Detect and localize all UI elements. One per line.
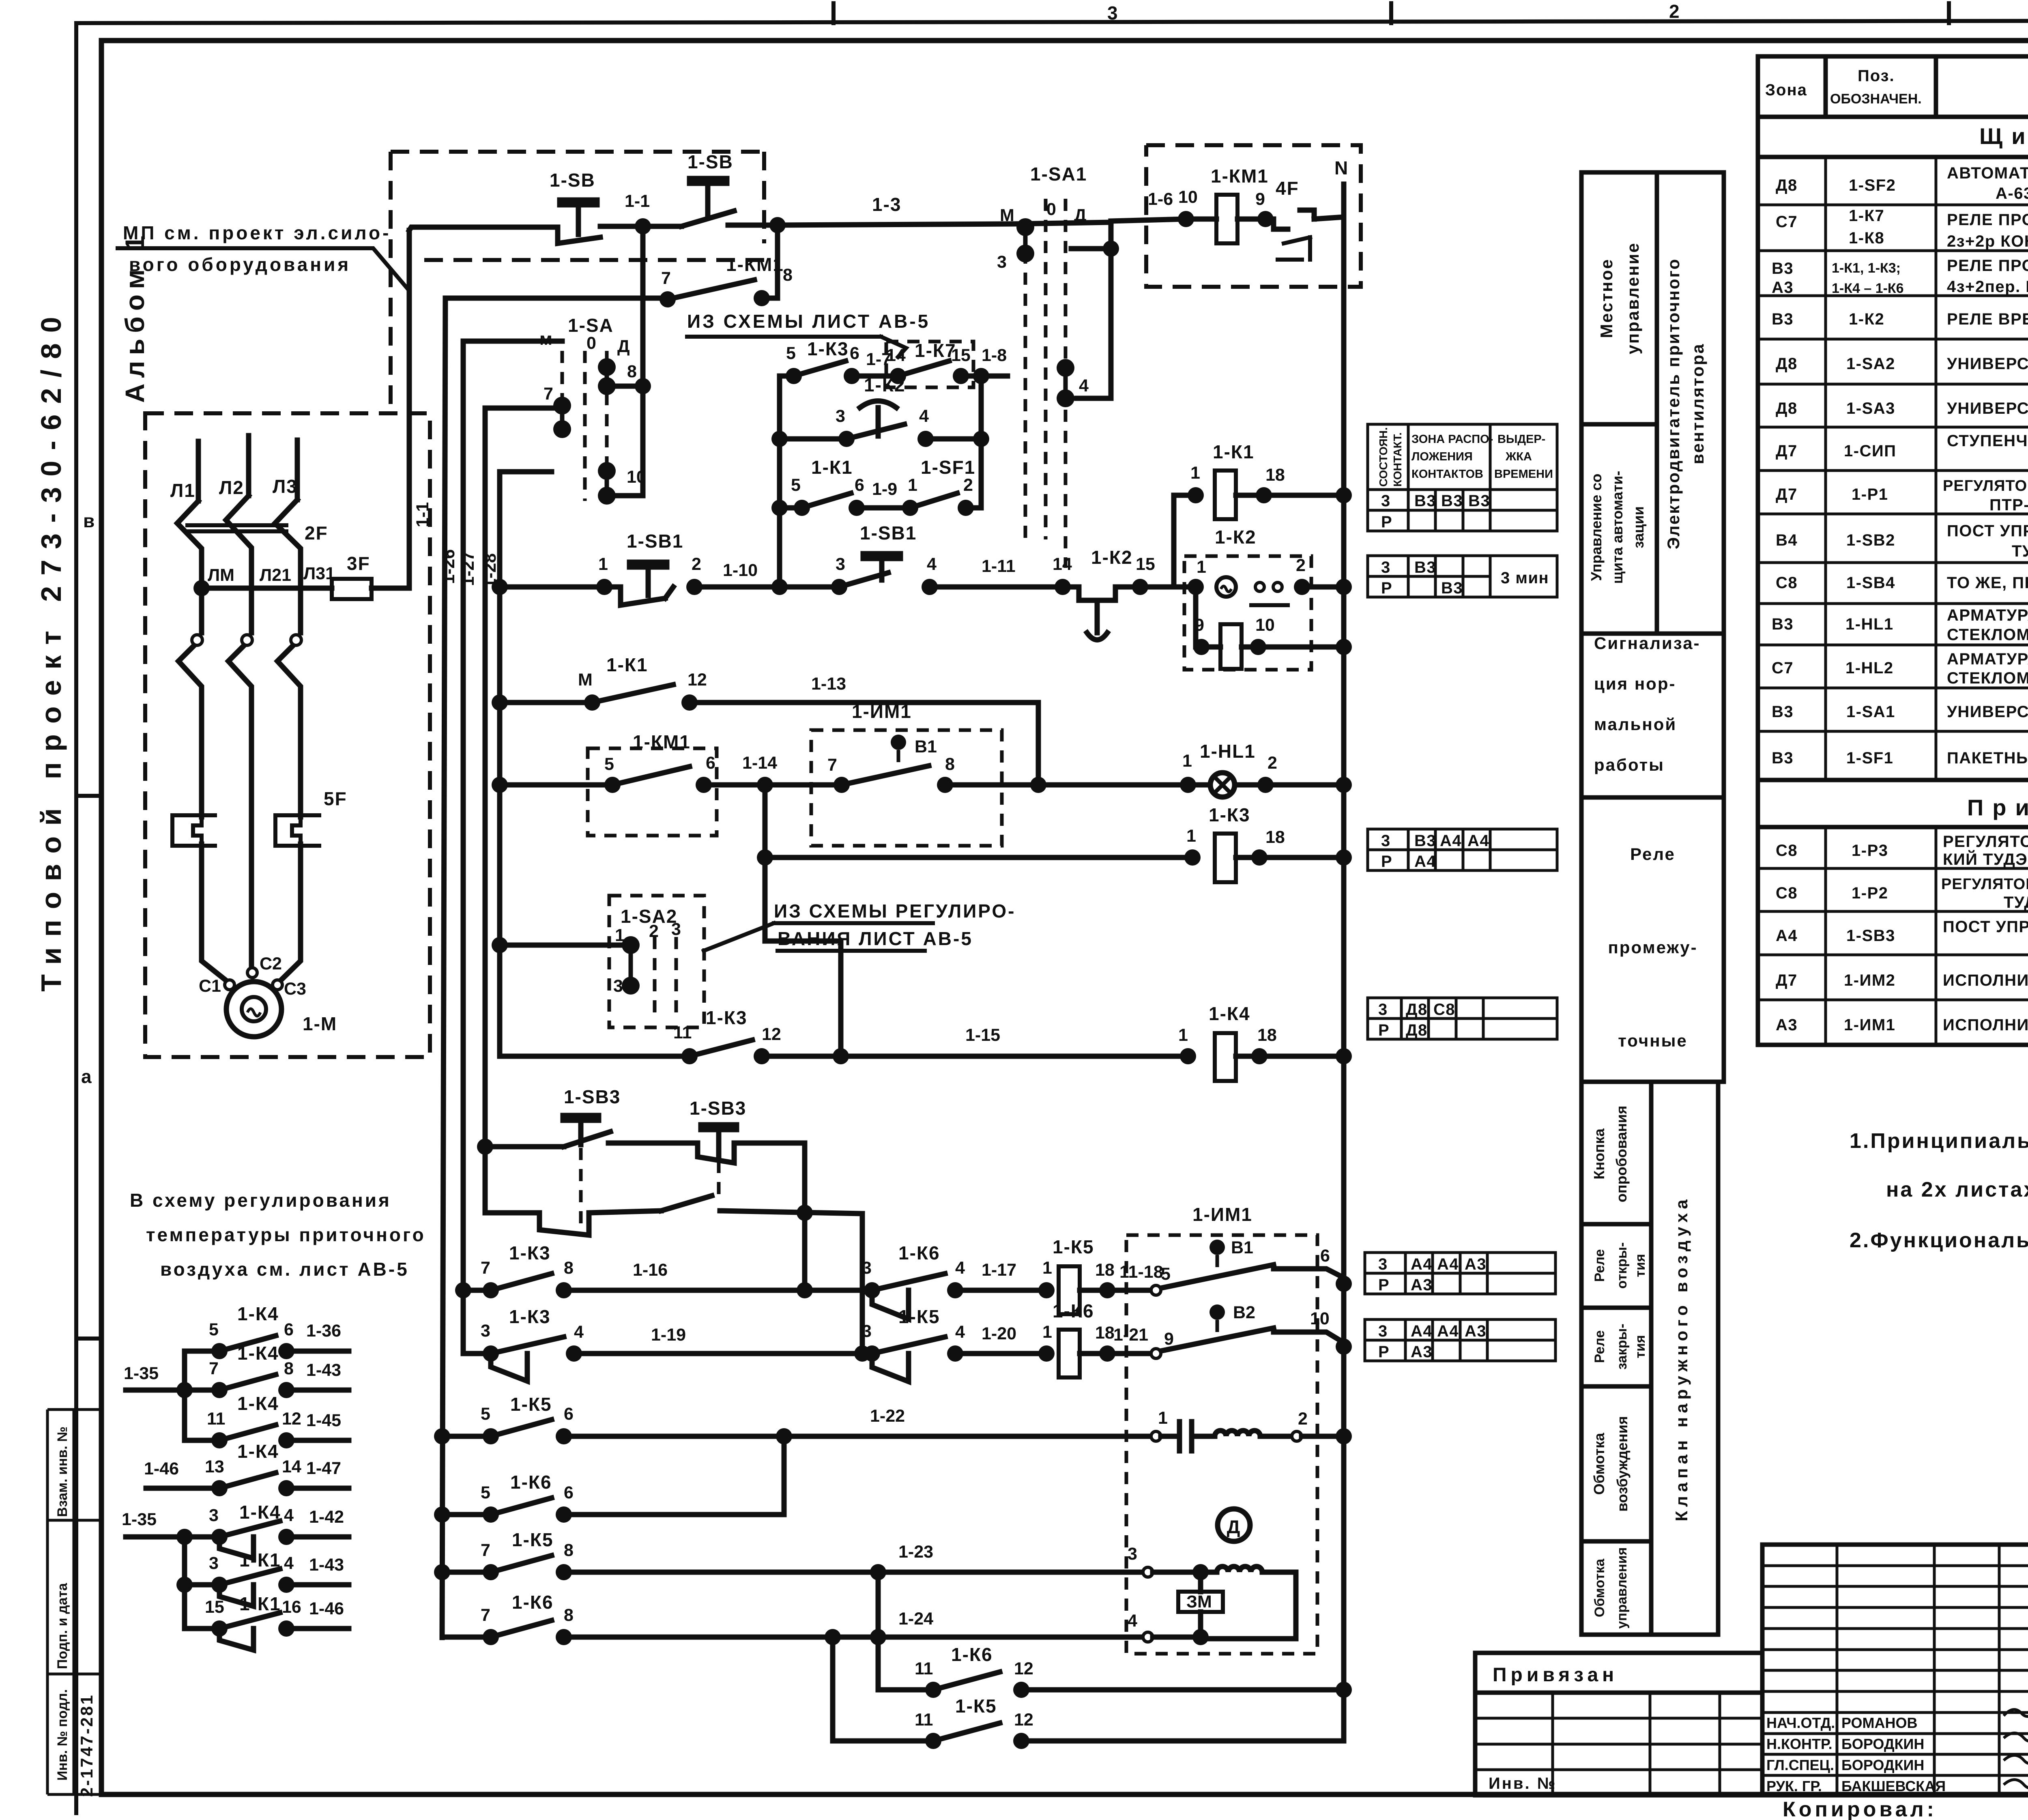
wire phase3 down to contactor (298, 588, 303, 633)
fuse 3F (332, 579, 372, 599)
motor terminal C2 (247, 968, 257, 978)
svg-text:1-10: 1-10 (723, 561, 758, 580)
svg-text:1-16: 1-16 (633, 1260, 668, 1280)
motor terminal C3 (273, 980, 282, 990)
svg-text:Д8: Д8 (1776, 176, 1798, 194)
svg-text:1-SА2: 1-SА2 (1846, 355, 1895, 373)
svg-text:В3: В3 (1441, 492, 1463, 510)
svg-text:3: 3 (613, 976, 623, 996)
svg-text:3: 3 (1128, 1544, 1137, 1564)
box intermediate relays (1581, 797, 1724, 1082)
rung 1-19 (463, 1351, 491, 1356)
breaker 2F contact phase2 (226, 496, 251, 588)
lower branch dip contact under button1 (539, 1211, 661, 1235)
svg-text:Реле: Реле (1592, 1249, 1607, 1282)
contact 1-K6 (933, 1672, 1000, 1690)
limit contact B1 in IM1 (1151, 1285, 1161, 1295)
left bus of subladder (777, 376, 782, 590)
motor D circle (1218, 1509, 1250, 1541)
svg-text:1-К1, 1-К3;: 1-К1, 1-К3; (1832, 260, 1901, 276)
svg-text:1: 1 (615, 926, 625, 945)
rung 1-24 (442, 1635, 491, 1640)
svg-text:1-К1: 1-К1 (606, 654, 648, 675)
svg-text:С3: С3 (284, 979, 306, 999)
dashed box 1-KM1 aux contact (588, 748, 717, 836)
wire L2 stub (246, 436, 251, 496)
rung SA2 (500, 943, 631, 948)
svg-text:18: 18 (1257, 1025, 1277, 1045)
svg-text:Поз.: Поз. (1858, 67, 1895, 85)
svg-text:вентилятора: вентилятора (1688, 343, 1707, 464)
svg-text:Р: Р (1378, 1021, 1390, 1039)
box excitation winding (1581, 1386, 1651, 1541)
svg-text:Щит автоматизации: Щит автоматизации (1979, 123, 2028, 149)
svg-text:9: 9 (1194, 615, 1204, 635)
svg-text:2: 2 (692, 554, 701, 574)
svg-text:А4: А4 (1440, 832, 1462, 850)
svg-text:1-SF2: 1-SF2 (1849, 176, 1896, 194)
svg-text:С7: С7 (1776, 213, 1798, 231)
state table header T1 (1368, 424, 1557, 531)
svg-text:1-35: 1-35 (122, 1510, 157, 1529)
SA contact pair D bottom (598, 462, 616, 480)
capacitor and inductor to N (1151, 1431, 1161, 1441)
svg-text:6: 6 (564, 1483, 574, 1502)
svg-text:1-К5: 1-К5 (898, 1306, 940, 1327)
svg-text:4: 4 (1079, 376, 1089, 395)
svg-text:НАЧ.ОТД.: НАЧ.ОТД. (1766, 1715, 1835, 1731)
rung 1-23 (442, 1570, 491, 1575)
svg-text:1-К3: 1-К3 (509, 1242, 551, 1263)
contact 1-K6 NC (872, 1274, 945, 1319)
svg-text:Л2: Л2 (219, 477, 244, 498)
breaker 2F contact phase3 (275, 500, 301, 588)
time contact 1-K2 NC with T (1063, 587, 1140, 640)
coil 1-KM1 (1216, 195, 1237, 243)
svg-text:1-6: 1-6 (1148, 189, 1173, 209)
node after NC (769, 217, 786, 233)
pushbutton 1-SB3 no1 T (563, 1115, 599, 1145)
svg-text:А3: А3 (1411, 1276, 1433, 1294)
svg-text:1-SВ3: 1-SВ3 (564, 1086, 621, 1107)
svg-text:Электродвигатель приточного: Электродвигатель приточного (1664, 258, 1683, 549)
svg-text:В3: В3 (1441, 579, 1463, 597)
svg-text:11: 11 (207, 1409, 225, 1429)
svg-text:ЗМ: ЗМ (1186, 1592, 1212, 1612)
coil 1-K5 (1059, 1266, 1080, 1314)
SA2 contact pair (622, 936, 640, 954)
svg-text:А3: А3 (1465, 1322, 1487, 1340)
svg-text:1: 1 (1182, 751, 1192, 771)
contact 1-K1 (592, 685, 673, 703)
svg-text:В3: В3 (1772, 310, 1794, 328)
breaker 2F trip bar (187, 523, 286, 527)
svg-text:тия: тия (1633, 1254, 1648, 1277)
svg-text:1-К4: 1-К4 (239, 1502, 281, 1523)
svg-text:3: 3 (1107, 2, 1119, 24)
svg-text:Л3: Л3 (273, 476, 298, 497)
svg-text:Кнопка: Кнопка (1591, 1128, 1607, 1179)
svg-text:1-К6: 1-К6 (1053, 1300, 1094, 1321)
svg-text:Управление со: Управление со (1588, 474, 1605, 581)
svg-text:Сигнализа-: Сигнализа- (1594, 634, 1701, 653)
contactor terminal phase1 (192, 635, 202, 645)
svg-text:УНИВЕРСАЛЬНЫЙ ПЕРЕКЛЮЧАТЕЛЬ: УНИВЕРСАЛЬНЫЙ ПЕРЕКЛЮЧАТЕЛЬ УП5313/С314 (1947, 702, 2028, 721)
svg-text:1-К6: 1-К6 (512, 1592, 554, 1613)
wire 10 from D pair to riser (607, 493, 643, 499)
rung 1-7 1-8 (780, 374, 794, 379)
box control winding (1581, 1541, 1651, 1635)
svg-text:А4: А4 (1437, 1322, 1459, 1340)
wire phase1 to motor (202, 844, 228, 982)
contact SB3 no2 step (698, 1143, 805, 1163)
svg-text:3: 3 (1378, 1255, 1388, 1273)
svg-text:1-SВ4: 1-SВ4 (1846, 574, 1895, 592)
svg-text:1-SА1: 1-SА1 (1030, 163, 1087, 185)
rung 11 1-K3 12 (500, 1054, 690, 1059)
thermal element 5F phase1 (172, 815, 215, 846)
SA2 dashed columns (653, 937, 657, 1014)
svg-text:10: 10 (627, 467, 646, 487)
box local control (1581, 172, 1657, 424)
svg-text:Д8: Д8 (1406, 1021, 1428, 1039)
svg-text:1: 1 (1190, 463, 1200, 483)
svg-text:1-15: 1-15 (965, 1025, 1000, 1045)
box test button (1581, 1082, 1651, 1224)
svg-text:Л1: Л1 (170, 480, 195, 501)
svg-text:3: 3 (836, 406, 845, 426)
zone tick top 2 (1389, 3, 1393, 23)
wire coil to 4F (1237, 217, 1265, 222)
svg-text:вого оборудования: вого оборудования (129, 254, 351, 275)
contact 1-K3 (491, 1274, 552, 1290)
svg-text:В1: В1 (1231, 1238, 1253, 1257)
svg-text:ЖКА: ЖКА (1505, 450, 1532, 463)
svg-text:РЕЛЕ ПРОМЕЖУТОЧНОЕ ~220 В: РЕЛЕ ПРОМЕЖУТОЧНОЕ ~220 В (1947, 211, 2028, 229)
svg-text:управления: управления (1614, 1547, 1630, 1629)
svg-text:5: 5 (1161, 1264, 1171, 1284)
svg-text:1-Р1: 1-Р1 (1852, 486, 1888, 503)
svg-text:12: 12 (282, 1409, 301, 1429)
svg-text:1-КМ1: 1-КМ1 (633, 731, 691, 752)
svg-text:А4: А4 (1437, 1255, 1459, 1273)
svg-text:1-Р3: 1-Р3 (1852, 842, 1888, 860)
svg-text:В3: В3 (1772, 749, 1794, 767)
svg-text:1-К4: 1-К4 (237, 1303, 279, 1324)
svg-text:БАКШЕВСКАЯ: БАКШЕВСКАЯ (1841, 1778, 1946, 1794)
svg-text:6: 6 (850, 344, 859, 363)
rung HL1 (500, 782, 612, 788)
contact 1-K5 (491, 1556, 552, 1572)
dash-dot box around KM1 coil (1146, 145, 1361, 287)
svg-text:6: 6 (855, 475, 864, 495)
svg-text:11: 11 (915, 1659, 933, 1678)
svg-text:1-SВ1: 1-SВ1 (627, 531, 683, 552)
time contact 1-K2 (846, 401, 904, 439)
svg-text:ВРЕМЕНИ: ВРЕМЕНИ (1494, 468, 1553, 481)
svg-text:В3: В3 (1468, 492, 1490, 510)
svg-text:1-SA: 1-SA (568, 315, 614, 336)
svg-text:мальной: мальной (1594, 715, 1677, 734)
svg-text:М: М (578, 670, 593, 690)
pushbutton 1-SB (NO make) (558, 200, 600, 243)
svg-text:14: 14 (282, 1457, 301, 1476)
svg-text:8: 8 (564, 1541, 574, 1560)
svg-text:1-К7: 1-К7 (1849, 207, 1884, 225)
svg-text:Н.КОНТР.: Н.КОНТР. (1766, 1736, 1833, 1752)
svg-text:18: 18 (1265, 465, 1285, 485)
svg-text:14: 14 (1053, 554, 1072, 574)
svg-text:Инв. №: Инв. № (1489, 1775, 1557, 1792)
svg-text:Клапан наружного воздуха: Клапан наружного воздуха (1672, 1195, 1691, 1521)
rung 1-45 (185, 1438, 219, 1443)
state table T6 (1365, 1319, 1555, 1361)
svg-text:1-М: 1-М (303, 1013, 337, 1034)
svg-text:ИСПОЛНИТЕЛЬНЫЙ МЕХАНИЗМ МЭО-: ИСПОЛНИТЕЛЬНЫЙ МЕХАНИЗМ МЭО-4/100 (1943, 1015, 2028, 1034)
svg-text:8: 8 (564, 1605, 574, 1625)
svg-text:3: 3 (1378, 1322, 1388, 1340)
pushbutton 1-SB1 NO (604, 562, 673, 605)
svg-text:опробования: опробования (1613, 1106, 1630, 1203)
wire 1-3 corner to 1-6 (1077, 222, 1111, 398)
row lines (1758, 204, 2028, 206)
svg-text:6: 6 (564, 1404, 574, 1424)
svg-text:12: 12 (762, 1025, 781, 1044)
svg-text:Д7: Д7 (1776, 442, 1798, 460)
riser 1-28 (483, 408, 488, 1147)
svg-text:10: 10 (1178, 187, 1198, 207)
svg-text:1: 1 (598, 554, 608, 574)
motor 1-M body (226, 982, 281, 1037)
contact 1-K7 (898, 361, 949, 376)
svg-text:1-SB: 1-SB (550, 170, 595, 191)
svg-text:1-К7: 1-К7 (915, 340, 956, 361)
svg-text:15: 15 (951, 346, 971, 365)
box signalling (1581, 634, 1724, 797)
svg-text:1-К1: 1-К1 (1213, 441, 1255, 462)
riser bus B2 (497, 472, 503, 1055)
riser from node 1-1 (640, 226, 646, 496)
svg-text:0: 0 (1046, 200, 1056, 219)
svg-text:1-8: 1-8 (982, 346, 1007, 365)
dashed enclosure box C motor circuit (145, 413, 430, 1057)
rung 1-K1 1-SF1 (771, 500, 788, 516)
svg-text:ция нор-: ция нор- (1594, 674, 1676, 693)
svg-text:1.Принципиальная электрическа: 1.Принципиальная электрическая схема вып… (1850, 1129, 2028, 1153)
svg-text:Зона: Зона (1765, 81, 1807, 99)
state table T4 (1368, 998, 1557, 1039)
svg-text:ВЫДЕР-: ВЫДЕР- (1497, 433, 1545, 446)
thermal release 4F (1265, 210, 1314, 229)
coil 1-K6 (1059, 1330, 1080, 1377)
svg-text:12: 12 (1014, 1659, 1033, 1678)
coil 1-K1 (1215, 471, 1236, 519)
sheet outer thin border line top (76, 20, 2028, 23)
svg-text:11: 11 (673, 1023, 692, 1042)
svg-text:Инв. № подл.: Инв. № подл. (55, 1689, 70, 1781)
svg-text:3: 3 (1378, 1001, 1388, 1019)
header row (1758, 115, 2028, 119)
svg-text:7: 7 (481, 1541, 490, 1560)
svg-text:3: 3 (209, 1506, 219, 1525)
svg-text:3 мин: 3 мин (1501, 569, 1549, 587)
svg-text:Д8: Д8 (1776, 400, 1798, 417)
svg-text:С8: С8 (1776, 574, 1798, 592)
right bus of subladder (979, 376, 984, 508)
coil 1-K3 (1215, 834, 1236, 882)
wire rung to SA block 10 (500, 469, 552, 475)
left box Privyazan (1475, 1653, 1762, 1795)
wire phase3 to motor (279, 844, 301, 982)
top rung wire left (409, 227, 558, 230)
K1 coil rung (1174, 495, 1196, 587)
svg-text:1-19: 1-19 (651, 1325, 686, 1345)
svg-text:13: 13 (205, 1457, 224, 1476)
svg-text:1-К1: 1-К1 (811, 457, 853, 478)
svg-text:7: 7 (544, 384, 553, 404)
svg-text:Подп. и дата: Подп. и дата (55, 1583, 70, 1669)
svg-text:А4: А4 (1776, 927, 1798, 945)
svg-text:УНИВЕРСАЛЬНЫЙ ПЕРЕКЛЮЧАТЕЛЬ УП: УНИВЕРСАЛЬНЫЙ ПЕРЕКЛЮЧАТЕЛЬ УП5311-А225 (1947, 354, 2028, 373)
svg-text:управление: управление (1623, 242, 1642, 354)
SA1 contact pair M on rung (1016, 218, 1034, 236)
svg-text:5: 5 (786, 344, 796, 363)
svg-text:Копировал:: Копировал: (1783, 1798, 1937, 1820)
rung 1-16 (463, 1288, 491, 1293)
svg-text:В3: В3 (1414, 832, 1436, 850)
rung 11 1-K5 12 (833, 1637, 933, 1741)
wire 4F to N (1314, 184, 1344, 219)
svg-text:18: 18 (1265, 827, 1285, 847)
svg-text:3: 3 (862, 1321, 872, 1341)
svg-text:3: 3 (671, 920, 681, 939)
svg-text:м: м (539, 329, 552, 349)
svg-text:тия: тия (1633, 1335, 1648, 1358)
rung 1-22 (442, 1434, 491, 1439)
svg-text:на 2х листах: АВ-4, АВ-5.: на 2х листах: АВ-4, АВ-5. (1886, 1178, 2028, 1201)
svg-text:1: 1 (1178, 1025, 1188, 1045)
svg-text:4: 4 (1128, 1611, 1137, 1631)
K2 contact gap (1255, 582, 1264, 591)
svg-text:РЕЛЕ ПРОМЕЖУТОЧНОЕ; ~220 В,: РЕЛЕ ПРОМЕЖУТОЧНОЕ; ~220 В, (1947, 257, 2028, 275)
svg-text:Р: Р (1378, 1276, 1390, 1294)
state table T3 (1368, 829, 1557, 870)
svg-text:Реле: Реле (1630, 844, 1676, 864)
svg-text:1-23: 1-23 (898, 1542, 933, 1562)
left switch 1-SA dashed columns (561, 351, 564, 434)
svg-text:1-21: 1-21 (1113, 1325, 1148, 1345)
contact 1-K3 NC (491, 1337, 564, 1381)
svg-text:Д: Д (617, 337, 630, 356)
svg-text:1-20: 1-20 (982, 1324, 1016, 1343)
svg-text:1-К5: 1-К5 (512, 1529, 554, 1550)
svg-text:В4: В4 (1776, 531, 1798, 549)
coil 1-K2 (1220, 624, 1242, 669)
svg-text:Д7: Д7 (1776, 971, 1798, 989)
svg-text:Р: Р (1378, 1343, 1390, 1361)
svg-text:Р: Р (1381, 579, 1392, 597)
svg-text:2F: 2F (305, 522, 328, 544)
svg-text:А4: А4 (1411, 1255, 1433, 1273)
svg-text:1-9: 1-9 (872, 479, 897, 499)
wire phase2 to motor (249, 941, 254, 969)
svg-text:7: 7 (209, 1359, 219, 1378)
svg-text:1-ИМ1: 1-ИМ1 (1192, 1204, 1252, 1225)
rung 5 1-K6 6 (442, 1512, 491, 1517)
svg-text:1-К2: 1-К2 (1091, 547, 1133, 568)
svg-text:2.Функциональную схему см.: 2.Функциональную схему см. лист АВ-3. (1850, 1229, 2028, 1252)
svg-text:4F: 4F (1276, 178, 1299, 199)
svg-text:Д: Д (1227, 1516, 1241, 1537)
svg-text:6: 6 (1320, 1246, 1330, 1266)
K2 coil row (1193, 587, 1199, 647)
svg-text:1-26: 1-26 (439, 549, 458, 584)
svg-text:ИЗ СХЕМЫ ЛИСТ АВ-5: ИЗ СХЕМЫ ЛИСТ АВ-5 (687, 311, 930, 332)
svg-text:1-К3: 1-К3 (706, 1007, 748, 1028)
svg-text:1-SB: 1-SB (687, 151, 733, 172)
svg-text:18: 18 (1095, 1260, 1115, 1280)
svg-text:СТЕКЛОМ АС-220 ~ 220 В: СТЕКЛОМ АС-220 ~ 220 В (1947, 669, 2028, 687)
svg-text:откры-: откры- (1614, 1242, 1630, 1289)
svg-text:5: 5 (604, 754, 614, 774)
svg-text:4: 4 (574, 1322, 584, 1342)
signature squiggles (2004, 1709, 2028, 1717)
svg-text:1-К4 – 1-К6: 1-К4 – 1-К6 (1832, 281, 1904, 296)
svg-text:МП см. проект эл.сило-: МП см. проект эл.сило- (123, 222, 391, 243)
svg-text:А4: А4 (1411, 1322, 1433, 1340)
contact 1-K6 (491, 1620, 552, 1637)
pushbutton 1-SB3 no2 T (701, 1125, 737, 1157)
svg-text:Местное: Местное (1597, 258, 1616, 338)
svg-text:5: 5 (209, 1320, 219, 1339)
svg-text:1-42: 1-42 (309, 1507, 344, 1527)
wire fuse to 1-1 riser (372, 230, 409, 588)
box closing relay (1581, 1308, 1651, 1386)
svg-text:2: 2 (1296, 556, 1306, 575)
svg-text:1-ИМ1: 1-ИМ1 (1844, 1016, 1895, 1034)
svg-text:1-SА3: 1-SА3 (1846, 400, 1895, 417)
svg-text:1-45: 1-45 (306, 1411, 341, 1430)
state table T2 (1368, 556, 1557, 597)
svg-text:РОМАНОВ: РОМАНОВ (1841, 1715, 1918, 1731)
svg-text:В3: В3 (1414, 492, 1436, 510)
svg-text:С8: С8 (1776, 884, 1798, 902)
contactor KM1 main contact phase1 (178, 646, 202, 817)
rung 1-42 (126, 1534, 219, 1540)
rung 1-43 (126, 1388, 219, 1393)
svg-text:1-43: 1-43 (306, 1360, 341, 1380)
wire D upper to junction (1071, 246, 1111, 251)
box control from automation board (1581, 424, 1657, 634)
svg-text:8: 8 (783, 265, 793, 285)
wire 1-6 to coil (1111, 219, 1216, 221)
svg-text:1-HL2: 1-HL2 (1845, 659, 1894, 677)
svg-text:1-46: 1-46 (309, 1599, 344, 1618)
wire L3 stub (295, 440, 300, 500)
svg-text:1-ИМ2: 1-ИМ2 (1844, 971, 1895, 989)
svg-text:1-ИМ1: 1-ИМ1 (852, 701, 912, 722)
svg-text:1-К1: 1-К1 (239, 1549, 281, 1571)
svg-text:1: 1 (1186, 826, 1196, 846)
state table T5 (1365, 1253, 1555, 1294)
svg-text:5F: 5F (324, 788, 347, 809)
svg-text:зации: зации (1630, 506, 1647, 548)
contact SB3 no1 (564, 1132, 610, 1147)
svg-text:1-SВ3: 1-SВ3 (690, 1098, 746, 1119)
svg-text:Типовой проект 273-30-62/80: Типовой проект 273-30-62/80 (35, 306, 67, 991)
svg-text:1-К5: 1-К5 (510, 1394, 552, 1415)
contact 1-K6 (491, 1498, 552, 1515)
